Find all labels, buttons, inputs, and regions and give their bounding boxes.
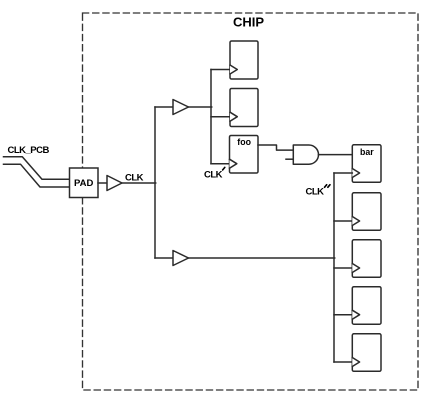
wire branch to FF3 clock bbox=[334, 220, 352, 222]
flip-flop FF6 bbox=[352, 334, 381, 372]
flip-flop FF2 bbox=[230, 89, 258, 127]
svg-text:CHIP: CHIP bbox=[233, 15, 264, 30]
wire main bus to buffer U3 bbox=[155, 257, 173, 259]
wire branch to foo clock bbox=[211, 163, 230, 165]
and-gate G1 bbox=[293, 145, 318, 164]
wire right column clock bus bbox=[333, 173, 335, 362]
wire branch to FF4 clock bbox=[334, 267, 352, 269]
wire branch to bar clock bbox=[334, 172, 352, 174]
wire branch to FF6 clock bbox=[334, 361, 352, 363]
wire U2 output to left column bus bbox=[189, 106, 212, 108]
svg-text:PAD: PAD bbox=[74, 178, 93, 189]
wire left column clock bus bbox=[210, 70, 212, 164]
buffer U2 bbox=[173, 100, 189, 115]
wire main bus to buffer U2 bbox=[155, 106, 173, 108]
wire foo output to AND gate input bbox=[258, 145, 293, 150]
flip-flop FF1 bbox=[230, 41, 258, 79]
wire U1 output to main bus bbox=[122, 182, 156, 184]
buffer U1 bbox=[107, 176, 122, 191]
svg-text:CLK_PCB: CLK_PCB bbox=[8, 145, 50, 156]
wire CLK_PCB upper trace bbox=[4, 157, 70, 180]
flip-flop FF4 bbox=[352, 240, 381, 277]
net CLK' label bbox=[204, 167, 225, 180]
wire branch to FF1 clock bbox=[211, 69, 230, 71]
buffer U3 bbox=[173, 251, 189, 266]
flip-flop bar bbox=[352, 145, 381, 183]
net CLK'' label bbox=[306, 185, 331, 198]
svg-text:CLK: CLK bbox=[125, 173, 144, 184]
wire branch to FF5 clock bbox=[334, 314, 352, 316]
svg-text:bar: bar bbox=[360, 147, 374, 157]
wire PAD to buffer U1 bbox=[98, 182, 107, 184]
wire AND output to bar D input bbox=[319, 154, 353, 156]
svg-text:CLK: CLK bbox=[306, 186, 325, 197]
wire main clock bus vertical bbox=[154, 107, 156, 258]
flip-flop FF5 bbox=[352, 287, 381, 325]
wire AND gate second input stub bbox=[286, 158, 293, 160]
chip boundary dashed border bbox=[83, 13, 419, 390]
wire branch to FF2 clock bbox=[211, 116, 230, 118]
flip-flop FF3 bbox=[352, 193, 381, 231]
wire CLK_PCB lower trace bbox=[4, 164, 70, 187]
svg-text:foo: foo bbox=[237, 137, 251, 147]
svg-text:CLK: CLK bbox=[204, 169, 223, 180]
wire U3 output to right column bus bbox=[189, 257, 335, 259]
flip-flop foo bbox=[230, 136, 259, 174]
pad PAD bbox=[70, 168, 99, 198]
